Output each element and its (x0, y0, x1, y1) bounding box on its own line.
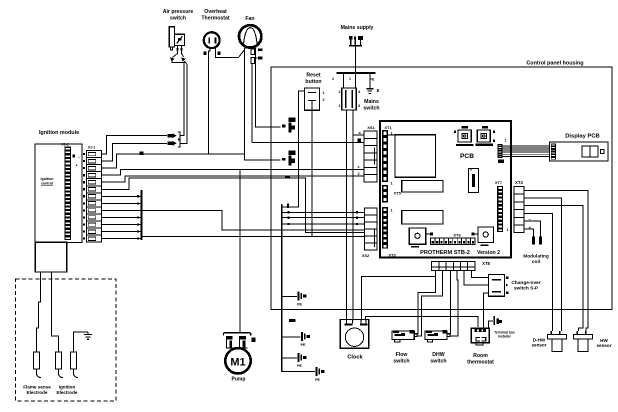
reset button label (305, 73, 321, 86)
clock body (340, 320, 369, 349)
svg-text:switch S-P: switch S-P (514, 286, 539, 292)
IC U1 (469, 169, 479, 193)
air pressure switch label (163, 9, 194, 22)
modulating coil (532, 237, 542, 245)
plug symbol P2 (282, 151, 296, 166)
svg-text:sensor: sensor (596, 343, 611, 348)
wire thermostat-left down (209, 48, 210, 154)
svg-text:1: 1 (338, 104, 340, 108)
wire switch-1 down to clock (345, 110, 347, 321)
svg-text:Pump: Pump (232, 377, 246, 383)
wire XP p6 to XS2 via 305 (101, 178, 364, 233)
wire XP p8 to bus (101, 202, 141, 204)
PCB outline (380, 121, 511, 258)
XS1 cell line 4 (364, 159, 377, 161)
trimmer T4 mark (472, 233, 489, 246)
wire XT8 c4 to DHW stub (450, 271, 458, 336)
wire switch-3 to XS1 a (353, 134, 364, 136)
module pin strip (64, 147, 71, 240)
wire electrode2 (52, 272, 59, 352)
PE bus to XS2 p2 (282, 217, 365, 219)
svg-text:XT1: XT1 (384, 125, 392, 130)
wire change-over body-bottom (484, 293, 489, 296)
plug mark XS2-3 (288, 223, 290, 225)
plug mark XS2-1b (356, 211, 358, 213)
wire aps-left down (170, 51, 184, 136)
overheat thermostat label (201, 9, 230, 22)
XS2 external block (365, 208, 378, 250)
svg-text:Reset: Reset (306, 73, 320, 79)
wire thermostat-right to fan (216, 48, 245, 58)
wire XT8 c6 to changeover (471, 271, 488, 278)
wire XP p3 to thermostat run (101, 154, 244, 168)
wire aps-right down (181, 51, 188, 144)
svg-text:PCB: PCB (460, 153, 474, 160)
DHW switch body (425, 330, 450, 342)
svg-text:Flow: Flow (396, 352, 409, 358)
svg-text:button: button (305, 79, 321, 85)
XS2 internal link (373, 230, 375, 248)
svg-text:Modulating: Modulating (523, 254, 549, 260)
svg-text:DHW: DHW (432, 352, 444, 358)
XS2 cell line 2 (365, 221, 378, 223)
module inner text (41, 177, 54, 186)
wire XP p1 to APS plug (101, 136, 167, 154)
svg-text:Air pressure: Air pressure (163, 9, 194, 15)
svg-text:3: 3 (358, 104, 360, 108)
plug mark on PE bus (289, 319, 296, 322)
ribbon cable (502, 146, 549, 157)
wire XT4 c4 to DHW left (524, 213, 553, 331)
svg-text:coil: coil (532, 259, 540, 265)
mains terminals N L E (349, 36, 363, 46)
wire XT4 c6 to coil (524, 229, 533, 237)
svg-text:PE: PE (297, 303, 302, 307)
svg-text:2: 2 (338, 90, 340, 94)
ground symbol G1 (282, 292, 307, 307)
wire fan-A down (244, 48, 246, 154)
trimmer T3 marks (411, 233, 433, 248)
wire switch-3 down to clock (352, 110, 354, 321)
XS2 cell line 1 (365, 214, 378, 216)
wire XT4 c2 to DHW right (524, 198, 561, 331)
svg-text:M1: M1 (230, 356, 245, 368)
plug mark on reset-earth wire (287, 204, 289, 208)
flame electrode label (23, 385, 51, 396)
dashed boundary box (16, 279, 117, 401)
plug mark XS2-2 (288, 217, 290, 219)
electrode E1 (34, 352, 42, 378)
HW sensor body (574, 331, 593, 352)
wire XP p5 to XS1 d (101, 176, 364, 182)
room thermostat label (467, 353, 494, 366)
PCB rect 2 (402, 181, 443, 192)
mains bus labels (332, 77, 375, 82)
wire XT8 c3 to DHW pad (448, 271, 451, 334)
svg-text:XS2: XS2 (362, 253, 370, 258)
svg-text:PE: PE (301, 343, 306, 347)
svg-text:XT7: XT7 (495, 181, 502, 185)
wire XP p2 to APS plug (101, 143, 167, 161)
svg-text:2: 2 (323, 98, 325, 102)
wire XP p12 to bus (101, 231, 141, 233)
XS1 cell line 3 (364, 152, 377, 154)
wire XP p11 to bus (101, 224, 141, 226)
svg-text:Mains supply: Mains supply (341, 25, 374, 31)
display pcb board (550, 142, 609, 161)
fan body (239, 25, 261, 47)
plug arrow APS-1 (168, 132, 181, 139)
wire XT8 c1 to clock+flow (362, 271, 436, 334)
DHW sensor label (531, 338, 546, 348)
plug mark on thermostat run (140, 151, 144, 155)
PCB relay box (395, 135, 435, 178)
wire XT4 c3 to HW left (524, 206, 583, 331)
plug mark XS2-1 (288, 211, 290, 213)
DHW switch label (430, 352, 446, 365)
ignition module box (35, 144, 82, 243)
svg-text:2: 2 (357, 172, 359, 176)
trimmer T4 (478, 227, 494, 243)
mains switch label (363, 99, 379, 112)
PE bus vertical (281, 204, 283, 372)
trimmer T3 (409, 228, 425, 244)
svg-text:PE: PE (297, 364, 302, 368)
HW sensor label (596, 338, 611, 348)
svg-text:XS1: XS1 (367, 125, 375, 130)
svg-text:thermostat: thermostat (467, 360, 494, 366)
svg-text:Flame sense: Flame sense (23, 385, 51, 390)
XT6 strip on pcb (431, 238, 476, 245)
svg-text:Fan: Fan (245, 16, 254, 22)
svg-text:XT5: XT5 (394, 191, 402, 196)
svg-text:switch: switch (393, 359, 409, 365)
svg-text:PE: PE (370, 78, 375, 82)
terminal box label (494, 331, 515, 339)
label b mark (358, 139, 362, 143)
svg-text:X1-1: X1-1 (88, 145, 96, 149)
XT8 strip (432, 262, 475, 271)
svg-text:1: 1 (505, 139, 507, 143)
svg-text:switch: switch (170, 16, 186, 22)
room thermostat body (471, 328, 489, 345)
plug mark p8 (137, 202, 139, 204)
svg-text:Control panel housing: Control panel housing (526, 61, 583, 67)
svg-text:Electrode: Electrode (57, 390, 78, 395)
svg-text:Mains: Mains (364, 99, 379, 105)
svg-text:Thermostat: Thermostat (201, 16, 230, 22)
svg-text:Room: Room (473, 353, 488, 359)
flow switch label (393, 352, 409, 365)
svg-text:Change-over: Change-over (511, 280, 540, 286)
pump plug symbols (226, 336, 255, 348)
XS1 cell line 1 (364, 137, 377, 139)
air pressure switch body (169, 27, 184, 51)
wire fan-B to mains-switch run (252, 141, 364, 143)
control panel housing box (271, 67, 612, 310)
wire XP p4 to XS1 c (101, 169, 364, 175)
ground symbol G3 (282, 353, 307, 368)
ignition transformer box (35, 242, 67, 272)
wire XT8 c5 to changeover (464, 271, 488, 286)
XS1 internal link (374, 147, 376, 164)
svg-text:X1-2: X1-2 (61, 143, 69, 147)
display segment windows (582, 146, 604, 157)
ribbon connector X5 (498, 139, 507, 163)
svg-text:PE: PE (315, 378, 320, 382)
PE bus to XS2 p3 (282, 223, 365, 225)
wire mains drop (354, 46, 356, 73)
harness bus vertical (141, 190, 143, 240)
harness connector strip X1-1 (83, 151, 102, 243)
svg-text:Electrode: Electrode (27, 390, 48, 395)
svg-text:XT4: XT4 (515, 180, 523, 185)
XT5 strip (382, 185, 388, 203)
plug symbol P1 (282, 118, 296, 133)
PE bus to XS2 p4 (282, 229, 365, 231)
wire XP p13 to bus (101, 238, 141, 240)
wire electrode1 (37, 272, 41, 352)
svg-text:Overheat: Overheat (204, 9, 227, 15)
plug mark on p6 run (285, 176, 290, 178)
XS2 cell line 4 (365, 235, 378, 237)
modulating coil label (523, 254, 549, 266)
trimmer T1 (458, 130, 471, 142)
trimmer T2 (477, 130, 490, 142)
XS1 external block (364, 131, 377, 182)
svg-text:1: 1 (507, 228, 509, 232)
svg-text:Display PCB: Display PCB (565, 134, 599, 140)
XS1 cell line 2 (364, 145, 377, 147)
wire reset-bottom (311, 110, 313, 136)
svg-text:control: control (41, 181, 53, 185)
ground symbol G2 (282, 332, 310, 347)
wire reset-bottom 2 (311, 136, 313, 237)
ignition electrode label (57, 385, 78, 396)
svg-text:Version 2: Version 2 (477, 250, 500, 256)
svg-text:installer: installer (498, 335, 512, 339)
display connector (551, 144, 556, 160)
wire fan-B down (251, 64, 253, 143)
wire XT8 c2 to flow stub (417, 271, 442, 336)
PCB rect 3 (402, 211, 443, 224)
wire change-over down to roomstat (483, 296, 485, 328)
XS2 cell line 3 (365, 228, 378, 230)
svg-text:Ignition: Ignition (59, 385, 76, 390)
pump terminal bar (224, 333, 251, 336)
plug arrow APS-2 (168, 140, 181, 147)
svg-text:2: 2 (332, 77, 334, 81)
plug mark XS2-3b (356, 223, 358, 225)
wire XT1 p1 to relay (388, 134, 395, 136)
svg-text:XT8: XT8 (482, 261, 490, 266)
svg-text:E: E (377, 88, 380, 93)
reset button body (305, 88, 325, 110)
harness bus exit run (142, 236, 365, 238)
svg-text:switch: switch (430, 359, 446, 365)
electrode E2 (56, 352, 64, 378)
wire XP p7 to bus (101, 195, 141, 197)
wire XT4 c5 to coil (524, 221, 541, 236)
wire fan-C down (256, 48, 281, 127)
wire pump feed from run (239, 169, 241, 332)
plug mark p12 (137, 230, 139, 232)
svg-text:XT6: XT6 (453, 233, 461, 238)
plug mark XS2-2b (356, 217, 358, 219)
fan connector block (245, 48, 263, 64)
svg-text:+: + (529, 226, 532, 231)
XS1 cell line 6 (364, 174, 377, 176)
svg-text:1: 1 (349, 77, 351, 81)
XT4 strip (514, 187, 524, 233)
svg-text:1: 1 (391, 209, 393, 213)
ground symbol electrodes (84, 332, 92, 339)
mains bus bar (337, 72, 376, 74)
trimmer T1 labels (454, 126, 474, 146)
svg-text:sensor: sensor (531, 343, 546, 348)
pump motor M1 (225, 348, 250, 373)
wire fan-A tail to plug (245, 154, 281, 160)
wire reset-left (282, 91, 305, 207)
plug mark p13 (137, 238, 139, 240)
overheat thermostat body (203, 32, 220, 55)
trimmer T2 labels (475, 126, 494, 146)
XS1 cell line 5 (364, 166, 377, 168)
ground symbol G4 (282, 367, 325, 382)
wire XP p9 long run to PE bus (101, 210, 281, 230)
XT7 strip (497, 186, 503, 232)
module strip polarity marks (73, 155, 81, 168)
XS2 cell line 5 (365, 242, 378, 244)
svg-text:c: c (357, 165, 359, 169)
svg-text:1: 1 (323, 91, 325, 95)
electrode E3 (71, 352, 79, 378)
wire XT4 c1 to HW right (524, 190, 588, 331)
PE bus to XS2 p1 (282, 211, 365, 213)
wire XP p10 to bus (101, 216, 141, 218)
plug mark p7 (137, 195, 139, 197)
change-over switch body (489, 275, 509, 297)
XT3 strip (382, 207, 388, 249)
mains switch body (338, 73, 361, 110)
wire clock to roomstat run (366, 317, 478, 328)
svg-text:Clock: Clock (347, 355, 363, 361)
mains earth symbol (366, 73, 379, 93)
DHW sensor body (548, 331, 567, 352)
terminal box symbol (494, 316, 502, 325)
change-over label (511, 280, 540, 292)
svg-text:1: 1 (391, 182, 393, 186)
wire electrode3 to ground (74, 332, 89, 352)
flow switch body (392, 330, 417, 342)
wire roomstat right to tbox (488, 321, 493, 328)
plug mark p11 (137, 223, 139, 225)
XT1 strip (382, 130, 388, 182)
svg-text:switch: switch (363, 106, 379, 112)
svg-text:PROTHERM STB-2: PROTHERM STB-2 (420, 250, 470, 256)
svg-text:Ignition module: Ignition module (39, 130, 79, 136)
plug mark p10 (137, 216, 139, 218)
